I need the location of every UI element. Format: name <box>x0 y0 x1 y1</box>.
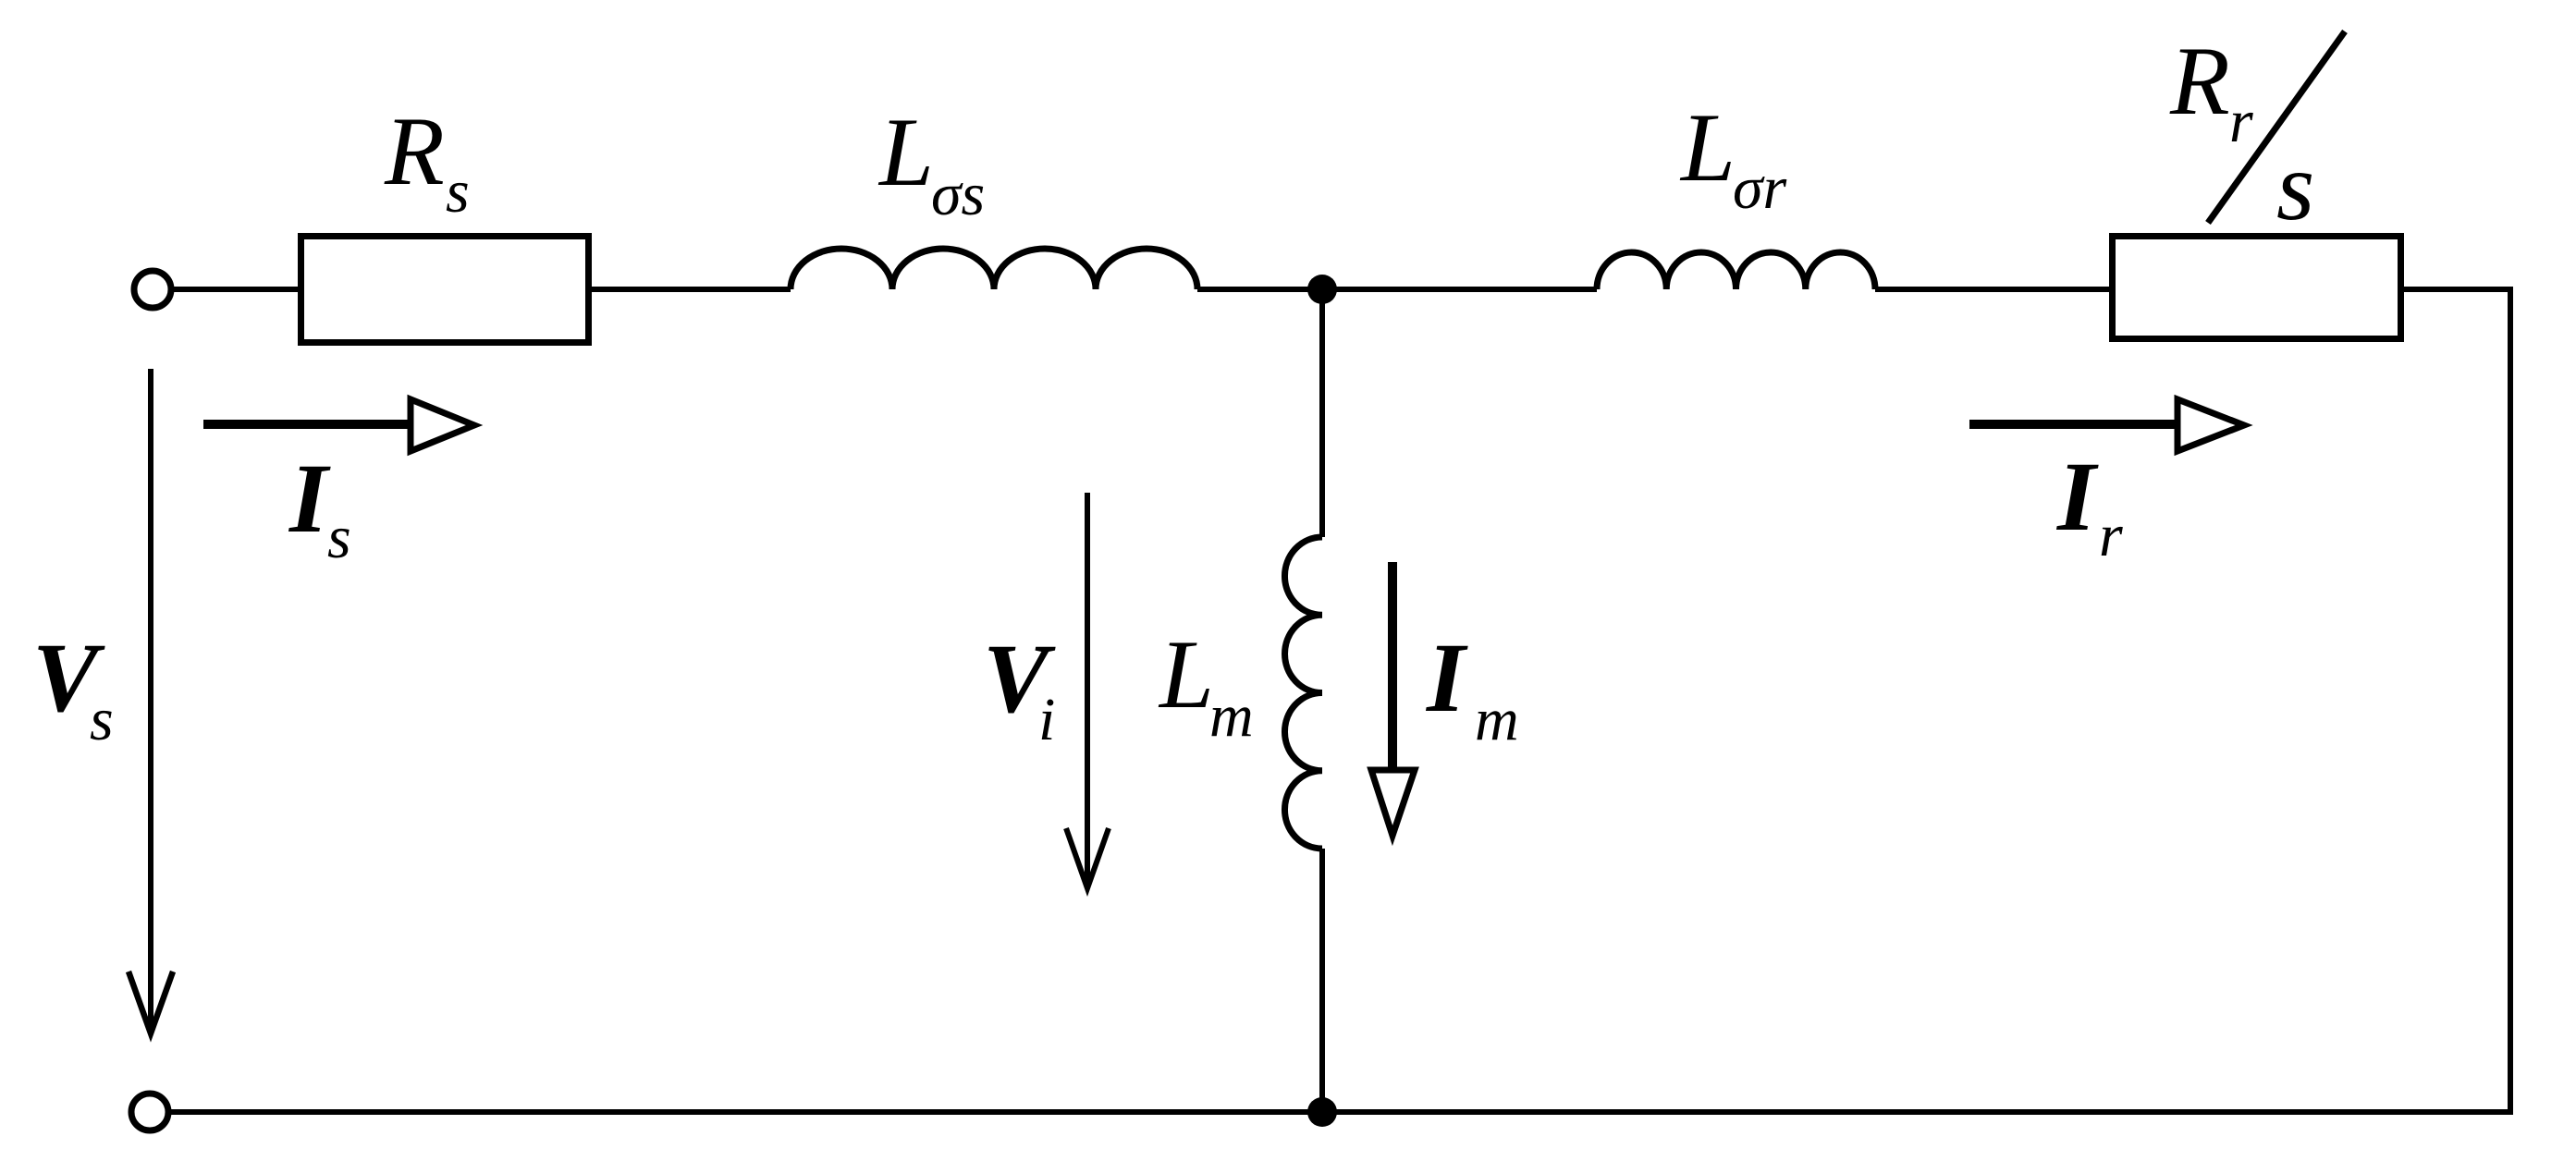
svg-text:I: I <box>1425 624 1468 733</box>
svg-text:L: L <box>1679 93 1736 202</box>
svg-text:L: L <box>877 98 934 206</box>
resistor R_r/s <box>2113 237 2401 339</box>
svg-text:R: R <box>384 97 445 205</box>
wire middle branch upper <box>1319 289 1325 537</box>
wire L_os to L_or <box>1197 287 1597 292</box>
wire L_or to R_r/s <box>1875 287 2112 292</box>
svg-text:r: r <box>2099 502 2123 569</box>
svg-text:R: R <box>2169 27 2230 135</box>
terminal top-left <box>134 271 171 308</box>
svg-text:σr: σr <box>1733 154 1787 222</box>
inductor L_os <box>791 249 1197 289</box>
arrow I_s <box>203 420 410 429</box>
wire R_s to L_os <box>589 287 791 292</box>
svg-text:i: i <box>1038 686 1055 753</box>
svg-text:r: r <box>2229 88 2253 155</box>
node bottom junction <box>1307 1097 1337 1127</box>
wire R_r/s to right corner, down and along bottom <box>171 289 2510 1112</box>
inductor L_m <box>1284 537 1322 849</box>
resistor R_s <box>301 237 589 343</box>
svg-text:I: I <box>288 445 331 554</box>
svg-text:m: m <box>1209 682 1254 750</box>
arrow V_s <box>148 369 153 1034</box>
wire top-left to R_s <box>174 287 301 292</box>
svg-text:s: s <box>2276 132 2314 240</box>
arrow I_m <box>1388 562 1397 770</box>
inductor L_or <box>1597 252 1875 289</box>
svg-text:σs: σs <box>931 161 985 228</box>
svg-text:I: I <box>2055 443 2099 552</box>
wire middle branch lower <box>1319 849 1325 1112</box>
node top junction <box>1307 275 1337 304</box>
svg-text:s: s <box>90 686 114 753</box>
slash of R_r/s <box>2208 31 2345 223</box>
arrow V_i <box>1085 493 1090 887</box>
svg-text:m: m <box>1475 686 1519 753</box>
arrow I_r <box>1969 420 2177 429</box>
svg-text:s: s <box>327 504 351 571</box>
svg-text:L: L <box>1158 620 1214 728</box>
svg-text:s: s <box>446 158 470 226</box>
terminal bottom-left <box>131 1094 168 1130</box>
